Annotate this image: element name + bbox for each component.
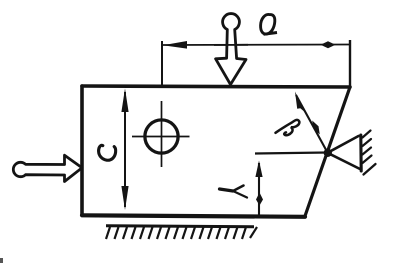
dimension a: right arrowhead xyxy=(321,41,336,48)
dimension a line crossing the arrow shaft xyxy=(214,44,248,46)
support wall hatching xyxy=(363,131,376,175)
label a xyxy=(261,14,277,34)
label gamma (rotated strokes) xyxy=(220,186,248,198)
body plate (trapezoid outline) xyxy=(82,86,350,217)
angle beta: reaction direction arrow xyxy=(295,92,328,153)
scan speck bottom-left xyxy=(0,258,3,263)
label c (hand-drawn, rotated 90deg ccw) xyxy=(99,145,116,160)
dimension c: line with two arrowheads xyxy=(121,89,128,211)
top force arrow (hollow, pointing down) xyxy=(216,14,246,85)
dimension gamma: vertical arrow xyxy=(255,161,263,218)
hole (circle with center lines) xyxy=(132,101,190,167)
pin support (triangle on slanted edge) xyxy=(328,135,362,171)
dimension a: extension lines xyxy=(162,40,350,88)
left force arrow (hollow, pointing right) xyxy=(13,155,82,181)
horizontal reference line to pin xyxy=(255,153,328,154)
dimension a: dimension line xyxy=(163,44,350,47)
label beta (hand-drawn) xyxy=(276,120,300,135)
ground hatching under plate xyxy=(106,226,257,239)
dimension a: left arrowhead xyxy=(163,41,187,49)
